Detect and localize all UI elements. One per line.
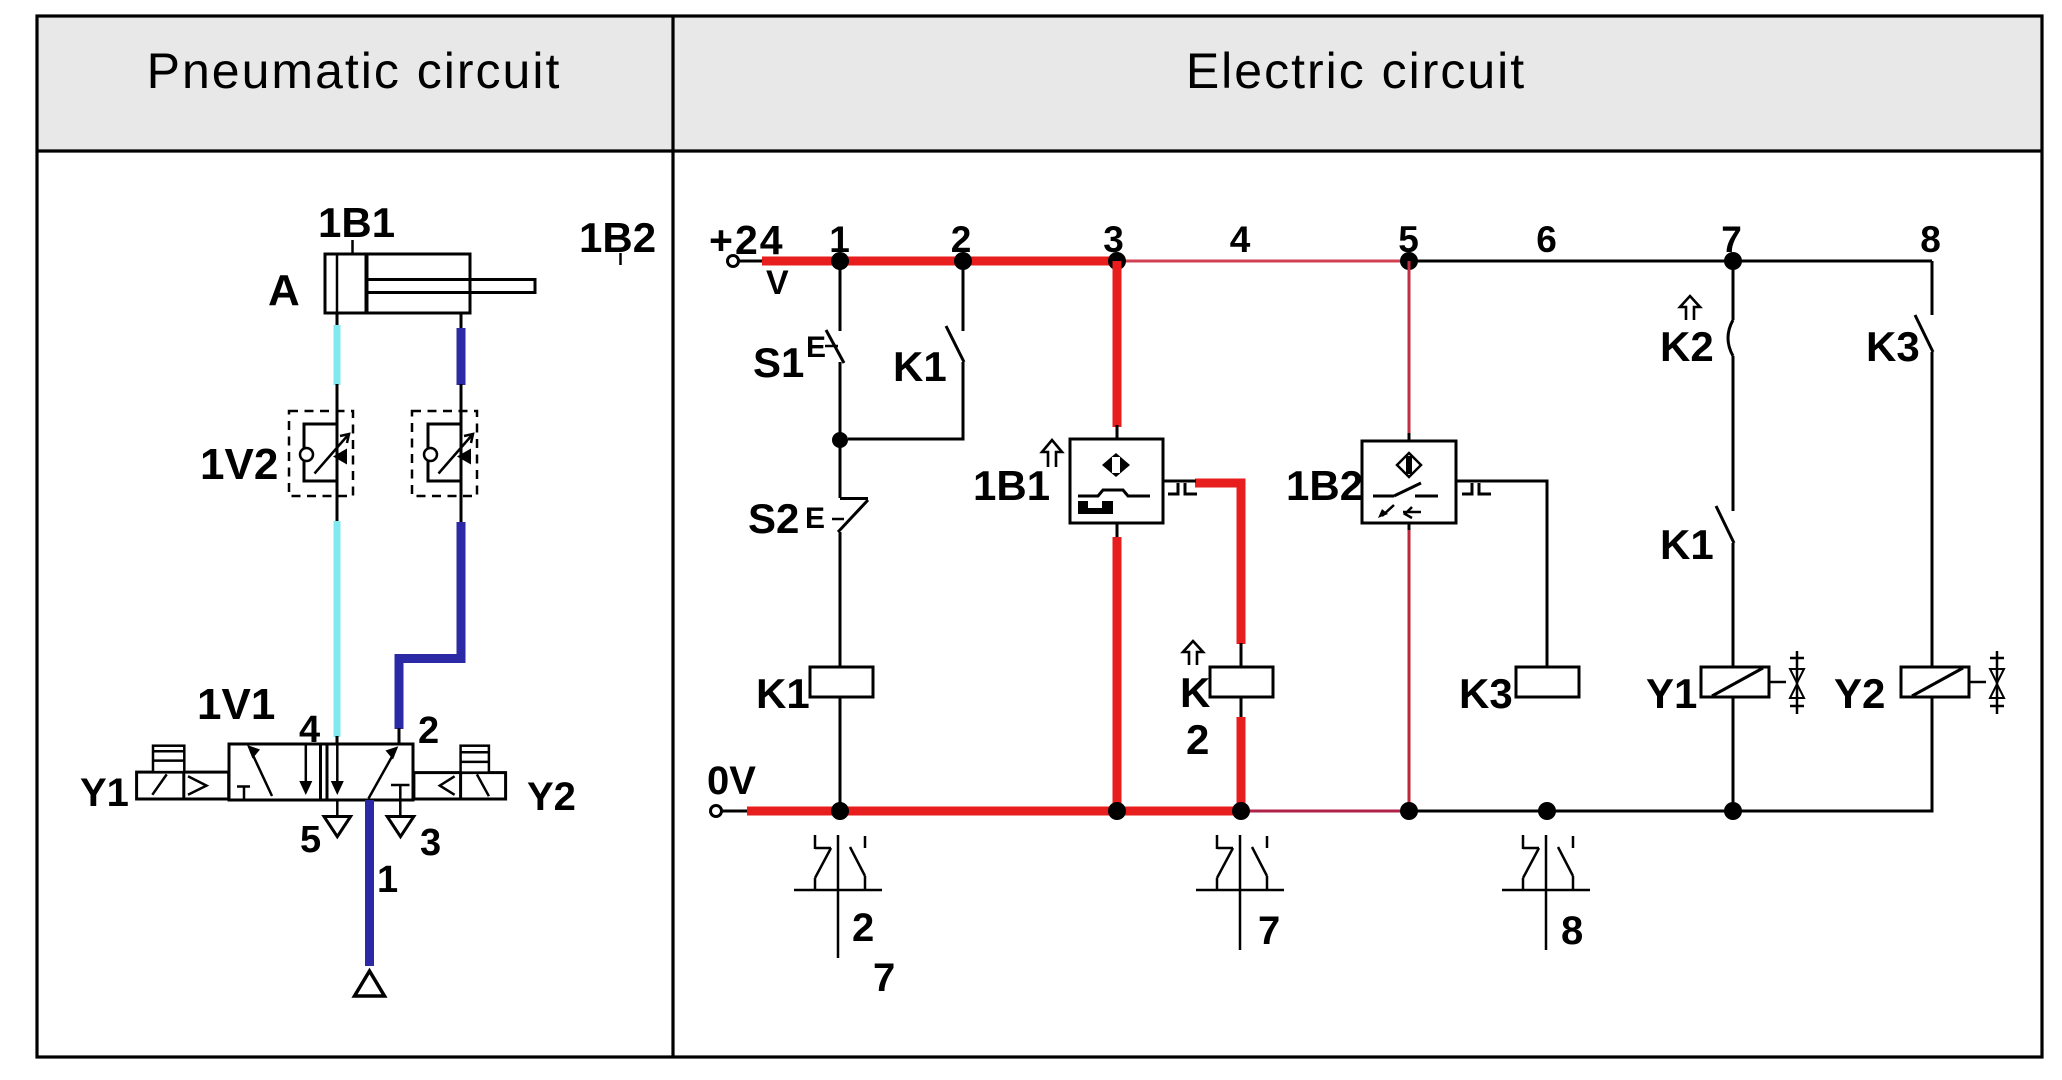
sensor 1B1 actuated arrow xyxy=(1042,440,1062,467)
sensor 1B2 open contact xyxy=(1373,483,1438,496)
svg-text:S1: S1 xyxy=(753,339,804,386)
wire: black through line of right throttle valve xyxy=(460,384,463,522)
wire: +24V rail black segment (node 5 to node 8) xyxy=(1409,260,1932,263)
valve 1V1 left chamber: blocked port T xyxy=(237,787,250,801)
solenoid Y1 manual override xyxy=(153,746,184,772)
switch S2 (NC) blade xyxy=(838,499,868,533)
label 1B2 (cylinder sensor) xyxy=(579,214,656,261)
mirror K3 contact number 8 xyxy=(1561,909,1583,953)
svg-text:Y2: Y2 xyxy=(1834,670,1885,717)
contact K1 rung7 (NO) blade xyxy=(1716,506,1734,543)
svg-text:E: E xyxy=(806,331,826,364)
valve 1V1 left chamber: arrow 1-4 xyxy=(247,745,272,796)
port label 5 xyxy=(300,819,321,861)
label K1 (contact rung 7) xyxy=(1660,521,1714,568)
svg-text:1B1: 1B1 xyxy=(973,462,1050,509)
port label 3 xyxy=(420,822,441,864)
exhaust triangle port 3 xyxy=(387,817,414,837)
label K2 (coil) split K / 2 with actuated arrow xyxy=(1180,641,1210,763)
svg-text:A: A xyxy=(268,266,300,315)
solenoid Y1 suppressor xyxy=(1769,651,1804,714)
wire: rung 2 upper lead (K1 contact) xyxy=(962,261,965,331)
svg-text:1B2: 1B2 xyxy=(579,214,656,261)
contact K2 (closed) arc blade xyxy=(1728,320,1733,356)
svg-text:+24: +24 xyxy=(709,217,785,263)
node dot 0V rung4 xyxy=(1232,802,1250,820)
sensor 1B2 position tick xyxy=(619,253,622,265)
wire: black through line of left throttle valve xyxy=(336,384,339,522)
sensor 1B1 box xyxy=(1070,439,1163,523)
svg-text:4: 4 xyxy=(1230,219,1251,260)
wire: sensor 1B1 output red wire to relay K2 coil xyxy=(1195,483,1241,811)
label 1V2 (throttle check valve) xyxy=(200,440,278,489)
wire: K2 contact to K1 contact xyxy=(1732,356,1735,511)
exhaust port 5 stub xyxy=(336,800,339,817)
label K1 (coil) xyxy=(756,670,810,717)
wire: rung 1 upper lead (S1) xyxy=(839,261,842,331)
wire: thin red from node 5 down to sensor 1B2 xyxy=(1408,261,1411,442)
svg-text:1B1: 1B1 xyxy=(318,199,395,246)
wire: 0V rail thin dark red segment xyxy=(1241,810,1409,813)
throttle check valve (right) body xyxy=(424,424,473,481)
svg-text:5: 5 xyxy=(300,819,321,861)
label V xyxy=(766,264,789,302)
mirror K1 contact number 7 xyxy=(873,956,895,1000)
valve 1V1 right chamber: arrow 1-2 xyxy=(369,746,399,798)
svg-text:K3: K3 xyxy=(1866,323,1920,370)
switch S1 (NO pushbutton) blade xyxy=(826,330,844,363)
node label 8 xyxy=(1920,219,1941,260)
port label 1 xyxy=(377,859,398,901)
+24V terminal xyxy=(728,256,765,267)
node label 6 xyxy=(1536,219,1557,260)
node dot rung1 top xyxy=(831,252,849,270)
svg-text:2: 2 xyxy=(852,906,874,950)
svg-text:Pneumatic circuit: Pneumatic circuit xyxy=(147,43,562,99)
wire: K1 contact to solenoid Y1 xyxy=(1732,543,1735,667)
contact K3 (NO) blade xyxy=(1915,315,1933,352)
wire: +24V rail thick red segment xyxy=(762,257,1117,266)
solenoid Y2 box xyxy=(414,773,506,799)
cylinder 1B1 body xyxy=(325,254,470,313)
node dot 0V rung1 xyxy=(831,802,849,820)
svg-text:K: K xyxy=(1180,669,1210,716)
node dot 0V rung7 xyxy=(1724,802,1742,820)
sensor 1B1 output pin xyxy=(1163,481,1197,494)
node label 5 xyxy=(1398,219,1419,260)
node dot 0V rung5 xyxy=(1400,802,1418,820)
header title: Pneumatic circuit xyxy=(147,43,562,99)
node label 2 xyxy=(951,219,972,260)
sensor 1B2 box xyxy=(1362,441,1456,523)
svg-text:3: 3 xyxy=(420,822,441,864)
svg-text:K1: K1 xyxy=(756,670,810,717)
sensor 1B1 closed reed contact xyxy=(1078,490,1150,514)
relay coil K3 xyxy=(1516,667,1579,697)
label 0V xyxy=(707,759,756,803)
label 1V1 (5/2 way valve) xyxy=(197,680,275,729)
svg-text:Y1: Y1 xyxy=(1646,670,1697,717)
wire: cylinder right port stub xyxy=(460,313,463,329)
sensor 1B2 proximity diamond xyxy=(1397,453,1421,477)
contact mirror under K3 coil xyxy=(1502,835,1590,950)
wire: solenoid Y2 to 0V rail corner xyxy=(1931,697,1934,813)
valve solenoid Y1 xyxy=(1701,667,1769,697)
wire: K1 contact lower lead and corner to junction xyxy=(848,362,963,439)
label S2 with actuator E xyxy=(748,495,844,542)
relay coil K1 xyxy=(810,667,873,697)
wire: K3 contact to solenoid Y2 xyxy=(1931,352,1934,667)
svg-text:V: V xyxy=(766,264,789,302)
svg-text:E: E xyxy=(805,502,825,535)
panel divider xyxy=(671,16,674,1057)
cylinder piston rod xyxy=(367,278,536,294)
contact mirror under K2 coil xyxy=(1196,835,1284,950)
valve 1V1 left chamber: down arrow 2-3 xyxy=(299,744,312,795)
svg-text:Electric circuit: Electric circuit xyxy=(1186,43,1526,99)
solenoid Y2 manual override xyxy=(461,746,489,773)
wire: port 2 stub xyxy=(398,728,401,744)
svg-text:S2: S2 xyxy=(748,495,799,542)
node dot 0V rung6 xyxy=(1538,802,1556,820)
mirror K2 contact number 7 xyxy=(1258,909,1280,953)
label K3 (coil) xyxy=(1459,670,1513,717)
node dot rung2 top xyxy=(954,252,972,270)
label K2 (contact) with actuated arrow xyxy=(1660,296,1714,370)
wire: solenoid Y1 to 0V rail xyxy=(1732,697,1735,811)
label +24 xyxy=(709,217,785,263)
svg-text:1V2: 1V2 xyxy=(200,440,278,489)
svg-text:7: 7 xyxy=(1258,909,1280,953)
label K3 (contact) xyxy=(1866,323,1920,370)
header separator line xyxy=(37,149,2042,152)
port label 2 xyxy=(418,710,439,752)
table header background xyxy=(37,16,2042,151)
solenoid Y1 box xyxy=(137,772,229,799)
throttle check valve 1V2 body xyxy=(300,424,349,481)
port label 4 xyxy=(299,709,320,751)
wire: blue pressurized segment below cylinder right port xyxy=(457,328,466,385)
wire: cylinder left port stub xyxy=(336,313,339,327)
solenoid Y2 suppressor xyxy=(1969,651,2004,714)
svg-text:1B2: 1B2 xyxy=(1286,462,1363,509)
sensor 1B2 output pin xyxy=(1456,481,1492,494)
svg-text:K1: K1 xyxy=(893,343,947,390)
contact mirror under K1 coil xyxy=(794,835,882,958)
relay coil K2 xyxy=(1210,667,1273,697)
wire: +24V rail thin red segment (node 3 to node 5) xyxy=(1117,260,1409,263)
node label 4 xyxy=(1230,219,1251,260)
exhaust port 3 stub xyxy=(399,800,402,817)
node dot rung3 top xyxy=(1108,252,1126,270)
exhaust triangle port 5 xyxy=(324,817,351,837)
valve solenoid Y2 xyxy=(1901,667,1969,697)
svg-text:0V: 0V xyxy=(707,759,756,803)
wire: 0V rail thick red segment xyxy=(747,807,1241,816)
svg-text:Y2: Y2 xyxy=(527,775,576,819)
svg-text:K1: K1 xyxy=(1660,521,1714,568)
label K1 (contact rung 2) xyxy=(893,343,947,390)
node label 7 xyxy=(1721,219,1742,260)
mirror K1 contact number 2 xyxy=(852,906,874,950)
label Y1 (left solenoid) xyxy=(80,771,129,815)
svg-text:6: 6 xyxy=(1536,219,1557,260)
label 1B1 (cylinder sensor) xyxy=(318,199,395,246)
sensor 1B2 magnet marks xyxy=(1378,505,1421,518)
valve 1V1 body xyxy=(229,744,413,800)
label 1B2 (sensor) xyxy=(1286,462,1363,509)
svg-text:7: 7 xyxy=(873,956,895,1000)
cylinder piston xyxy=(365,254,369,313)
header title: Electric circuit xyxy=(1186,43,1526,99)
wire: K1 coil to 0V rail xyxy=(839,697,842,811)
node label 1 xyxy=(829,219,850,260)
compressed air supply triangle xyxy=(355,971,385,996)
junction node S1/K1/S2 xyxy=(832,432,848,448)
label S1 with actuator E xyxy=(753,331,838,386)
valve 1V1 right chamber: down arrow 4-5 xyxy=(331,744,344,795)
node label 3 xyxy=(1103,219,1124,260)
svg-text:2: 2 xyxy=(1186,716,1209,763)
svg-text:1V1: 1V1 xyxy=(197,680,275,729)
wire: blue supply line port 1 xyxy=(365,800,374,966)
throttle check valve 1V2 dashed enclosure xyxy=(289,411,353,496)
wire: sensor 1B2 output black wire to relay K3 coil xyxy=(1491,481,1547,667)
wire: S1 to junction xyxy=(839,362,842,440)
svg-text:8: 8 xyxy=(1561,909,1583,953)
label Y2 (right solenoid) xyxy=(527,775,576,819)
wire: thick red from node 3 down to sensor 1B1 xyxy=(1113,261,1122,439)
svg-text:Y1: Y1 xyxy=(80,771,129,815)
valve 1V1 right chamber: blocked port 3 T xyxy=(391,785,410,800)
svg-text:2: 2 xyxy=(418,710,439,752)
label Y2 (solenoid) xyxy=(1834,670,1885,717)
wire: cyan segment below cylinder left port xyxy=(334,325,341,385)
svg-text:K3: K3 xyxy=(1459,670,1513,717)
label 1B1 (sensor) xyxy=(973,462,1050,509)
wire: cyan line from throttle 1V2 down to valve port 4 xyxy=(334,521,341,737)
switch S2 (NC) lead xyxy=(839,440,842,498)
wire: rung 8 upper lead xyxy=(1931,261,1934,315)
contact K1 rung2 (NO) blade xyxy=(946,326,964,362)
svg-text:1: 1 xyxy=(377,859,398,901)
svg-text:8: 8 xyxy=(1920,219,1941,260)
sensor 1B1 position tick xyxy=(351,240,354,253)
wire: sensor 1B1 bottom to 0V rail (thick red) xyxy=(1116,523,1119,811)
node dot 0V rung3 xyxy=(1108,802,1126,820)
wire: port 4 stub xyxy=(336,736,339,744)
wire: rung 7 upper lead xyxy=(1732,261,1735,320)
wire: blue pressurized pipe from right throttle to valve port 2 xyxy=(399,522,461,729)
throttle check valve (right, unlabeled) dashed enclosure xyxy=(412,411,477,496)
label A (cylinder) xyxy=(268,266,300,315)
wire: 0V rail black segment xyxy=(1409,810,1934,813)
wire: sensor 1B2 bottom to 0V rail (thin dark red) xyxy=(1408,522,1411,811)
0V terminal xyxy=(711,806,749,817)
node dot rung5 top xyxy=(1400,252,1418,270)
label Y1 (solenoid) xyxy=(1646,670,1697,717)
wire: S2 to relay coil K1 xyxy=(839,532,842,667)
svg-text:K2: K2 xyxy=(1660,323,1714,370)
sensor 1B1 proximity diamond xyxy=(1102,453,1130,477)
node dot rung7 top xyxy=(1724,252,1742,270)
